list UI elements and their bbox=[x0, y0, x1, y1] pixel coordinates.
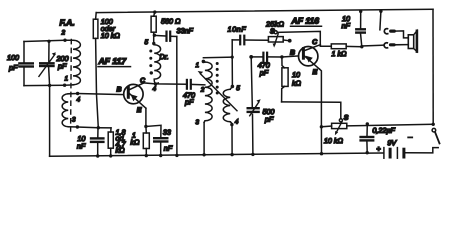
svg-text:pF: pF bbox=[8, 63, 18, 72]
wire earphone upper feed bbox=[380, 11, 381, 30]
wire upper pin to speaker bbox=[395, 31, 409, 38]
wire L2 top terminal 4 to base wire bbox=[68, 93, 77, 95]
wire emitter to 33nF bypass bbox=[146, 125, 161, 137]
svg-text:B: B bbox=[290, 50, 295, 57]
capacitor 10nF IF coupling bbox=[240, 36, 268, 45]
svg-text:F.A.: F.A. bbox=[59, 18, 74, 28]
svg-text:AF 116: AF 116 bbox=[290, 16, 319, 26]
wire transformer terminal 5 hook bbox=[230, 87, 232, 90]
wire right vertical from top rail to switch bbox=[432, 9, 434, 124]
node 25k pot right terminal dot bbox=[288, 39, 292, 43]
wire base of AF117 bbox=[78, 94, 124, 95]
inductor L1 antenna coil bbox=[73, 40, 80, 85]
svg-text:5: 5 bbox=[236, 85, 240, 92]
node earphone feed at top rail bbox=[379, 10, 382, 13]
wire AF116 collector to 1k bbox=[320, 45, 331, 47]
earphone plug lower pin bbox=[391, 43, 395, 46]
potentiometer 25k regeneration bbox=[268, 31, 288, 48]
resistor R 1k emitter bbox=[143, 127, 149, 156]
svg-text:kΩ: kΩ bbox=[130, 138, 140, 147]
svg-text:pF: pF bbox=[57, 62, 67, 71]
wire AF117 collector row bbox=[144, 83, 187, 84]
svg-text:E: E bbox=[137, 107, 142, 114]
svg-text:+: + bbox=[376, 144, 381, 153]
wire AF117 emitter down bbox=[145, 108, 147, 126]
capacitor 470pF AF116 coupling bbox=[263, 53, 267, 62]
node 33nF at ground rail bbox=[159, 154, 162, 157]
svg-text:pF: pF bbox=[264, 115, 274, 124]
node coupling junction 500pF bbox=[249, 55, 253, 59]
node 10nF at ground rail bbox=[96, 154, 99, 157]
node 1.8k at ground rail bbox=[109, 154, 112, 157]
capacitor C 200pF variable bbox=[39, 41, 56, 85]
choke core dots bbox=[149, 50, 153, 75]
svg-text:pF: pF bbox=[184, 97, 194, 106]
capacitor 470pF coupling to IF transformer bbox=[187, 80, 205, 89]
svg-text:560 Ω: 560 Ω bbox=[161, 17, 181, 26]
svg-text:33: 33 bbox=[163, 128, 171, 137]
node 500pF at ground rail bbox=[251, 153, 254, 156]
transformer tuning arrow bbox=[198, 71, 237, 111]
node terminal 4 of L2 bbox=[76, 92, 79, 95]
resistor R 1k AF116 collector bbox=[331, 44, 362, 49]
node junction bias row and 10nF bbox=[97, 126, 100, 129]
svg-text:S: S bbox=[270, 28, 275, 35]
svg-text:5: 5 bbox=[144, 39, 148, 46]
wire L2 bottom terminal 3 bbox=[68, 126, 77, 128]
wire transformer terminal 4 to ground bbox=[230, 122, 232, 155]
svg-text:100: 100 bbox=[7, 53, 19, 62]
svg-text:10 kΩ: 10 kΩ bbox=[324, 136, 344, 145]
node transformer terminal 1 bbox=[202, 60, 206, 64]
node 560ohm at top rail bbox=[153, 10, 156, 13]
potentiometer 10k volume with switch bbox=[321, 119, 433, 135]
wire 33nF decoupling to ground rail bbox=[176, 37, 178, 156]
wire 10k bottom to volume pot wiper bbox=[282, 102, 341, 119]
svg-text:S: S bbox=[344, 115, 349, 122]
capacitor 10nF output to rail bbox=[356, 11, 365, 46]
node 1k at ground rail bbox=[145, 154, 148, 157]
node emitter pot junction bbox=[320, 125, 323, 128]
transformer secondary winding bbox=[223, 89, 230, 122]
svg-text:3: 3 bbox=[195, 119, 199, 126]
svg-text:4: 4 bbox=[76, 97, 80, 104]
wire bottom ground rail left part bbox=[50, 153, 384, 156]
svg-text:1: 1 bbox=[64, 76, 68, 83]
resistor R 560 ohm bbox=[151, 12, 156, 43]
svg-text:B: B bbox=[116, 87, 121, 94]
svg-text:Dr.: Dr. bbox=[159, 52, 168, 61]
earphone jack upper contact bbox=[384, 29, 387, 34]
svg-text:33nF: 33nF bbox=[176, 26, 193, 35]
capacitor C 100pF bbox=[19, 42, 32, 86]
svg-text:nF: nF bbox=[164, 144, 173, 153]
node junction top of 200pF branch bbox=[47, 40, 50, 43]
node emitter at ground rail bbox=[320, 152, 323, 155]
svg-text:3: 3 bbox=[72, 117, 76, 124]
transistor Q2 AF116 bbox=[299, 45, 321, 69]
svg-text:1 kΩ: 1 kΩ bbox=[331, 49, 347, 58]
node junction terminal1 wire bbox=[231, 56, 234, 59]
earphone jack lower contact bbox=[384, 43, 387, 48]
ferrite core dashed line bbox=[70, 40, 73, 132]
svg-text:25kΩ: 25kΩ bbox=[265, 20, 284, 29]
svg-text:2: 2 bbox=[200, 87, 205, 94]
wire left tuned-circuit top bbox=[24, 40, 73, 41]
transformer primary winding bbox=[204, 62, 212, 123]
svg-text:10 kΩ: 10 kΩ bbox=[101, 31, 121, 40]
svg-text:4: 4 bbox=[152, 86, 156, 93]
wire L1 bottom to terminal 1 bbox=[65, 84, 74, 86]
node collector junction with choke bbox=[154, 82, 157, 85]
capacitor 33nF decoupling bbox=[154, 32, 176, 41]
node switch junction bbox=[432, 123, 435, 126]
node junction 560ohm and 33nF decoupling bbox=[153, 34, 156, 37]
underline AF116 bbox=[291, 25, 322, 27]
node terminal 2 of L1 bbox=[63, 39, 66, 42]
wire terminal5 branch vertical bbox=[231, 40, 233, 87]
node junction 10k bias tap bbox=[280, 55, 283, 58]
wire bottom rail right part to switch stub bbox=[406, 148, 439, 153]
wire 470pF to AF116 base bbox=[267, 56, 299, 57]
wire transformer terminal 1 to 10nF branch bbox=[203, 56, 232, 59]
svg-text:1: 1 bbox=[195, 62, 199, 69]
node 0.22uF junction top bbox=[366, 122, 369, 125]
node terminal 1 of L1 bbox=[63, 84, 66, 87]
label battery minus bbox=[408, 136, 412, 138]
svg-text:0,22µF: 0,22µF bbox=[372, 126, 395, 135]
svg-text:AF 117: AF 117 bbox=[97, 56, 127, 66]
earphone plug upper pin bbox=[391, 30, 395, 33]
node terminal 5 end dot bbox=[231, 85, 235, 89]
speaker earphone bbox=[408, 31, 417, 52]
svg-text:2: 2 bbox=[60, 30, 65, 37]
node junction bottom of 200pF branch bbox=[48, 84, 51, 87]
wire choke bottom to collector node bbox=[156, 82, 159, 85]
wire lower output to jack bbox=[362, 45, 384, 47]
svg-text:10nF: 10nF bbox=[227, 25, 246, 34]
transistor Q1 AF117 bbox=[124, 83, 146, 108]
node transformer terminal 4 at rail bbox=[230, 153, 233, 156]
capacitor 0.22uF bbox=[361, 124, 374, 153]
transformer core dots bbox=[216, 62, 219, 95]
wire base bias node row bbox=[77, 126, 111, 129]
node 33nF decoupling at ground rail bbox=[175, 154, 178, 157]
wire 200pF branch to ground rail bbox=[49, 85, 51, 156]
switch on-off bbox=[432, 128, 439, 143]
underline AF117 bbox=[98, 66, 131, 68]
capacitor 33nF emitter bypass bbox=[154, 138, 167, 155]
wire top supply rail bbox=[96, 9, 433, 12]
svg-text:kΩ: kΩ bbox=[292, 79, 302, 88]
node 0.22uF at ground rail bbox=[366, 151, 369, 154]
svg-text:kΩ: kΩ bbox=[116, 146, 126, 155]
battery 9V bbox=[384, 148, 404, 159]
svg-text:4: 4 bbox=[235, 119, 239, 126]
resistor R 10k base bias bbox=[282, 57, 289, 102]
node choke top terminal bbox=[152, 42, 155, 45]
wire AF116 base row bbox=[251, 56, 262, 58]
svg-text:9V: 9V bbox=[387, 138, 397, 147]
svg-text:pF: pF bbox=[259, 68, 269, 77]
svg-text:E: E bbox=[312, 69, 317, 76]
wire transformer terminal 3 to ground bbox=[203, 123, 205, 155]
node junction 1k output and 10nF bbox=[360, 45, 363, 48]
resistor R 100-or-10k bias bbox=[93, 13, 98, 128]
node terminal 3 of L2 bbox=[76, 125, 79, 128]
wire lower pin to speaker bbox=[395, 44, 409, 46]
capacitor 500pF variable tuning bbox=[248, 57, 261, 154]
wire switch S to AF116 collector bbox=[277, 31, 320, 45]
inductor L2 coupling coil bbox=[62, 94, 68, 127]
wire left tuned-circuit bottom bbox=[24, 84, 65, 86]
inductor Dr. choke bbox=[154, 45, 160, 84]
wire to 10nF IF coupling bbox=[232, 39, 238, 41]
svg-text:nF: nF bbox=[77, 142, 86, 151]
resistor R 1.8-or-4.7k bbox=[108, 128, 113, 156]
node 10nF output at top rail bbox=[359, 10, 362, 13]
wire AF116 emitter down bbox=[320, 69, 322, 154]
svg-text:nF: nF bbox=[341, 21, 350, 30]
node emitter junction bbox=[144, 125, 147, 128]
node transformer terminal 3 at rail bbox=[202, 153, 205, 156]
capacitor 10nF base decoupling bbox=[91, 128, 103, 156]
node transformer terminal 4 bbox=[230, 123, 233, 126]
